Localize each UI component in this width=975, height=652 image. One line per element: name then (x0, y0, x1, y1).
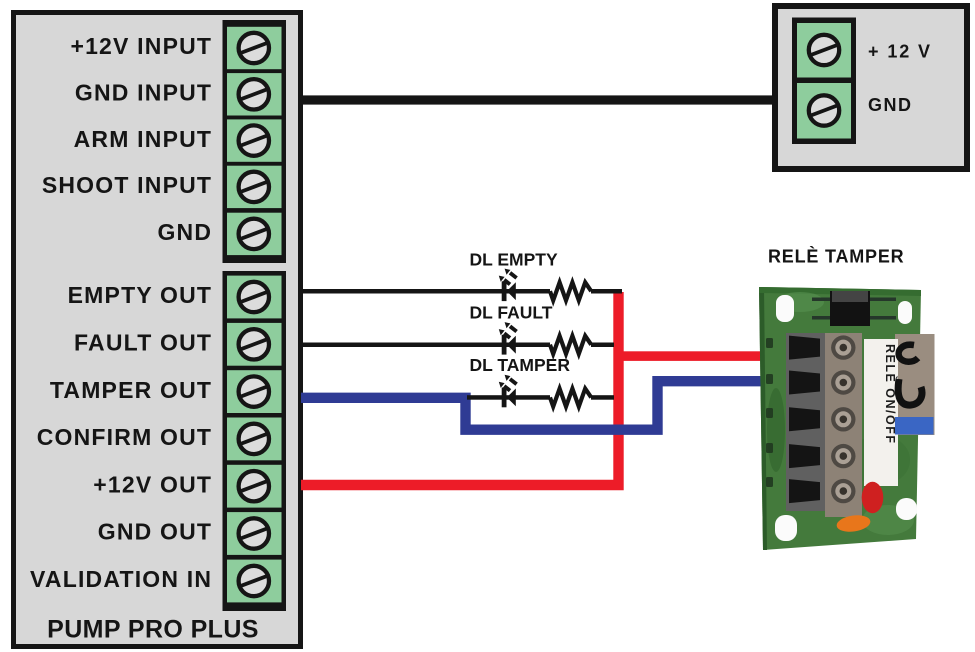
terminal VALIDATION IN (227, 560, 282, 603)
wire red branch to RELE TAMPER module (619, 351, 764, 361)
terminal strip J1 (inputs) (223, 20, 287, 263)
LED red on module (862, 482, 884, 513)
mounting hole top-left (776, 295, 794, 322)
terminal strip J2 (outputs) (223, 271, 287, 611)
svg-text:FAULT OUT: FAULT OUT (74, 330, 212, 356)
svg-text:EMPTY OUT: EMPTY OUT (68, 282, 213, 308)
relay blue wire stub (895, 417, 934, 435)
wire FAULT OUT row (black) (299, 343, 614, 348)
relay K1 body (895, 334, 935, 435)
module pin silkscreen marks (766, 338, 773, 487)
box PUMP PRO PLUS unit (14, 13, 301, 647)
svg-text:GND: GND (157, 219, 212, 245)
terminal GND OUT (227, 512, 282, 555)
LED DL FAULT (499, 322, 517, 354)
terminal GND INPUT (227, 73, 282, 115)
svg-text:GND: GND (868, 95, 913, 115)
svg-text:DL EMPTY: DL EMPTY (470, 250, 558, 270)
terminal strip J3 (power) (792, 18, 856, 145)
resistor R3 (DL TAMPER series) (550, 389, 591, 407)
module RELE TAMPER PCB (759, 287, 921, 550)
svg-text:GND OUT: GND OUT (98, 519, 212, 545)
svg-text:RELÈ TAMPER: RELÈ TAMPER (768, 246, 904, 267)
terminal + 12 V (797, 23, 851, 78)
relay K1 markings (898, 345, 922, 405)
LED DL TAMPER (499, 375, 517, 408)
terminal +12V OUT (227, 465, 282, 508)
svg-text:DL FAULT: DL FAULT (470, 303, 553, 323)
terminal EMPTY OUT (227, 276, 282, 319)
terminal SHOOT INPUT (227, 166, 282, 208)
svg-text:+ 12 V: + 12 V (868, 42, 932, 62)
terminal GND (797, 83, 851, 139)
terminal ARM INPUT (227, 119, 282, 161)
wire TAMPER OUT to module (blue) (301, 381, 764, 430)
terminal block right half (screws) (825, 333, 862, 517)
mounting hole top-right (898, 301, 912, 324)
svg-text:+12V INPUT: +12V INPUT (70, 33, 212, 59)
resistor R2 (DL FAULT series) (550, 336, 591, 354)
mounting hole bottom-right (896, 498, 917, 520)
diode D1 leads (812, 298, 896, 320)
resistor orange on module (836, 513, 872, 534)
svg-text:SHOOT INPUT: SHOOT INPUT (42, 172, 212, 198)
svg-text:PUMP PRO PLUS: PUMP PRO PLUS (47, 616, 259, 644)
wire +12V OUT (red) with riser (301, 292, 619, 485)
box +12V power supply (775, 6, 967, 169)
svg-text:TAMPER OUT: TAMPER OUT (50, 377, 212, 403)
LED DL EMPTY (499, 269, 517, 301)
terminal GND (227, 213, 282, 255)
terminal FAULT OUT (227, 323, 282, 366)
wire TAMPER LED row (black) (467, 395, 614, 400)
wire EMPTY OUT row (black) (299, 289, 622, 294)
svg-text:+12V OUT: +12V OUT (93, 471, 212, 497)
svg-text:ARM INPUT: ARM INPUT (74, 126, 213, 152)
terminal TAMPER OUT (227, 370, 282, 413)
wire GND INPUT to power supply GND (black) (300, 95, 775, 104)
label RELE ONOFF sticker (864, 339, 898, 486)
svg-text:GND INPUT: GND INPUT (75, 80, 212, 106)
terminal +12V INPUT (227, 27, 282, 69)
resistor R1 (DL EMPTY series) (550, 282, 591, 300)
terminal CONFIRM OUT (227, 418, 282, 461)
svg-text:CONFIRM OUT: CONFIRM OUT (37, 424, 212, 450)
mounting hole bottom-left (775, 515, 797, 541)
terminal block left half (slots) (786, 333, 825, 511)
diode D1 (830, 291, 870, 326)
svg-text:DL TAMPER: DL TAMPER (470, 355, 571, 375)
svg-text:VALIDATION IN: VALIDATION IN (30, 566, 212, 592)
